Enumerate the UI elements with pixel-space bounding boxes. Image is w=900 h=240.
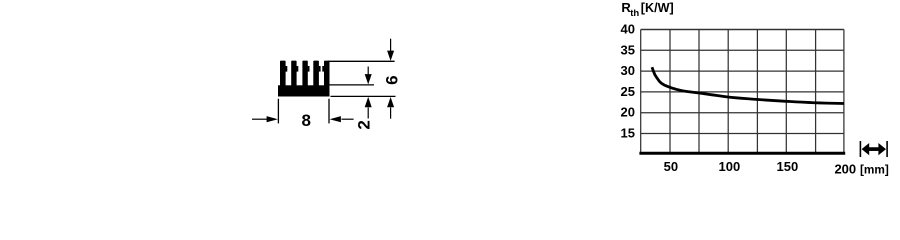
- svg-text:35: 35: [621, 42, 635, 57]
- svg-text:2: 2: [355, 120, 374, 129]
- svg-text:15: 15: [621, 126, 635, 141]
- svg-text:100: 100: [719, 159, 741, 174]
- svg-text:th: th: [630, 8, 639, 19]
- svg-text:30: 30: [621, 63, 635, 78]
- svg-text:200: 200: [834, 161, 856, 176]
- svg-text:8: 8: [301, 111, 310, 130]
- svg-text:6: 6: [382, 75, 401, 84]
- svg-text:50: 50: [664, 159, 678, 174]
- svg-text:150: 150: [777, 159, 799, 174]
- svg-text:20: 20: [621, 105, 635, 120]
- svg-text:[K/W]: [K/W]: [641, 1, 674, 15]
- svg-text:25: 25: [621, 84, 635, 99]
- svg-text:40: 40: [621, 22, 635, 37]
- svg-text:[mm]: [mm]: [860, 162, 889, 176]
